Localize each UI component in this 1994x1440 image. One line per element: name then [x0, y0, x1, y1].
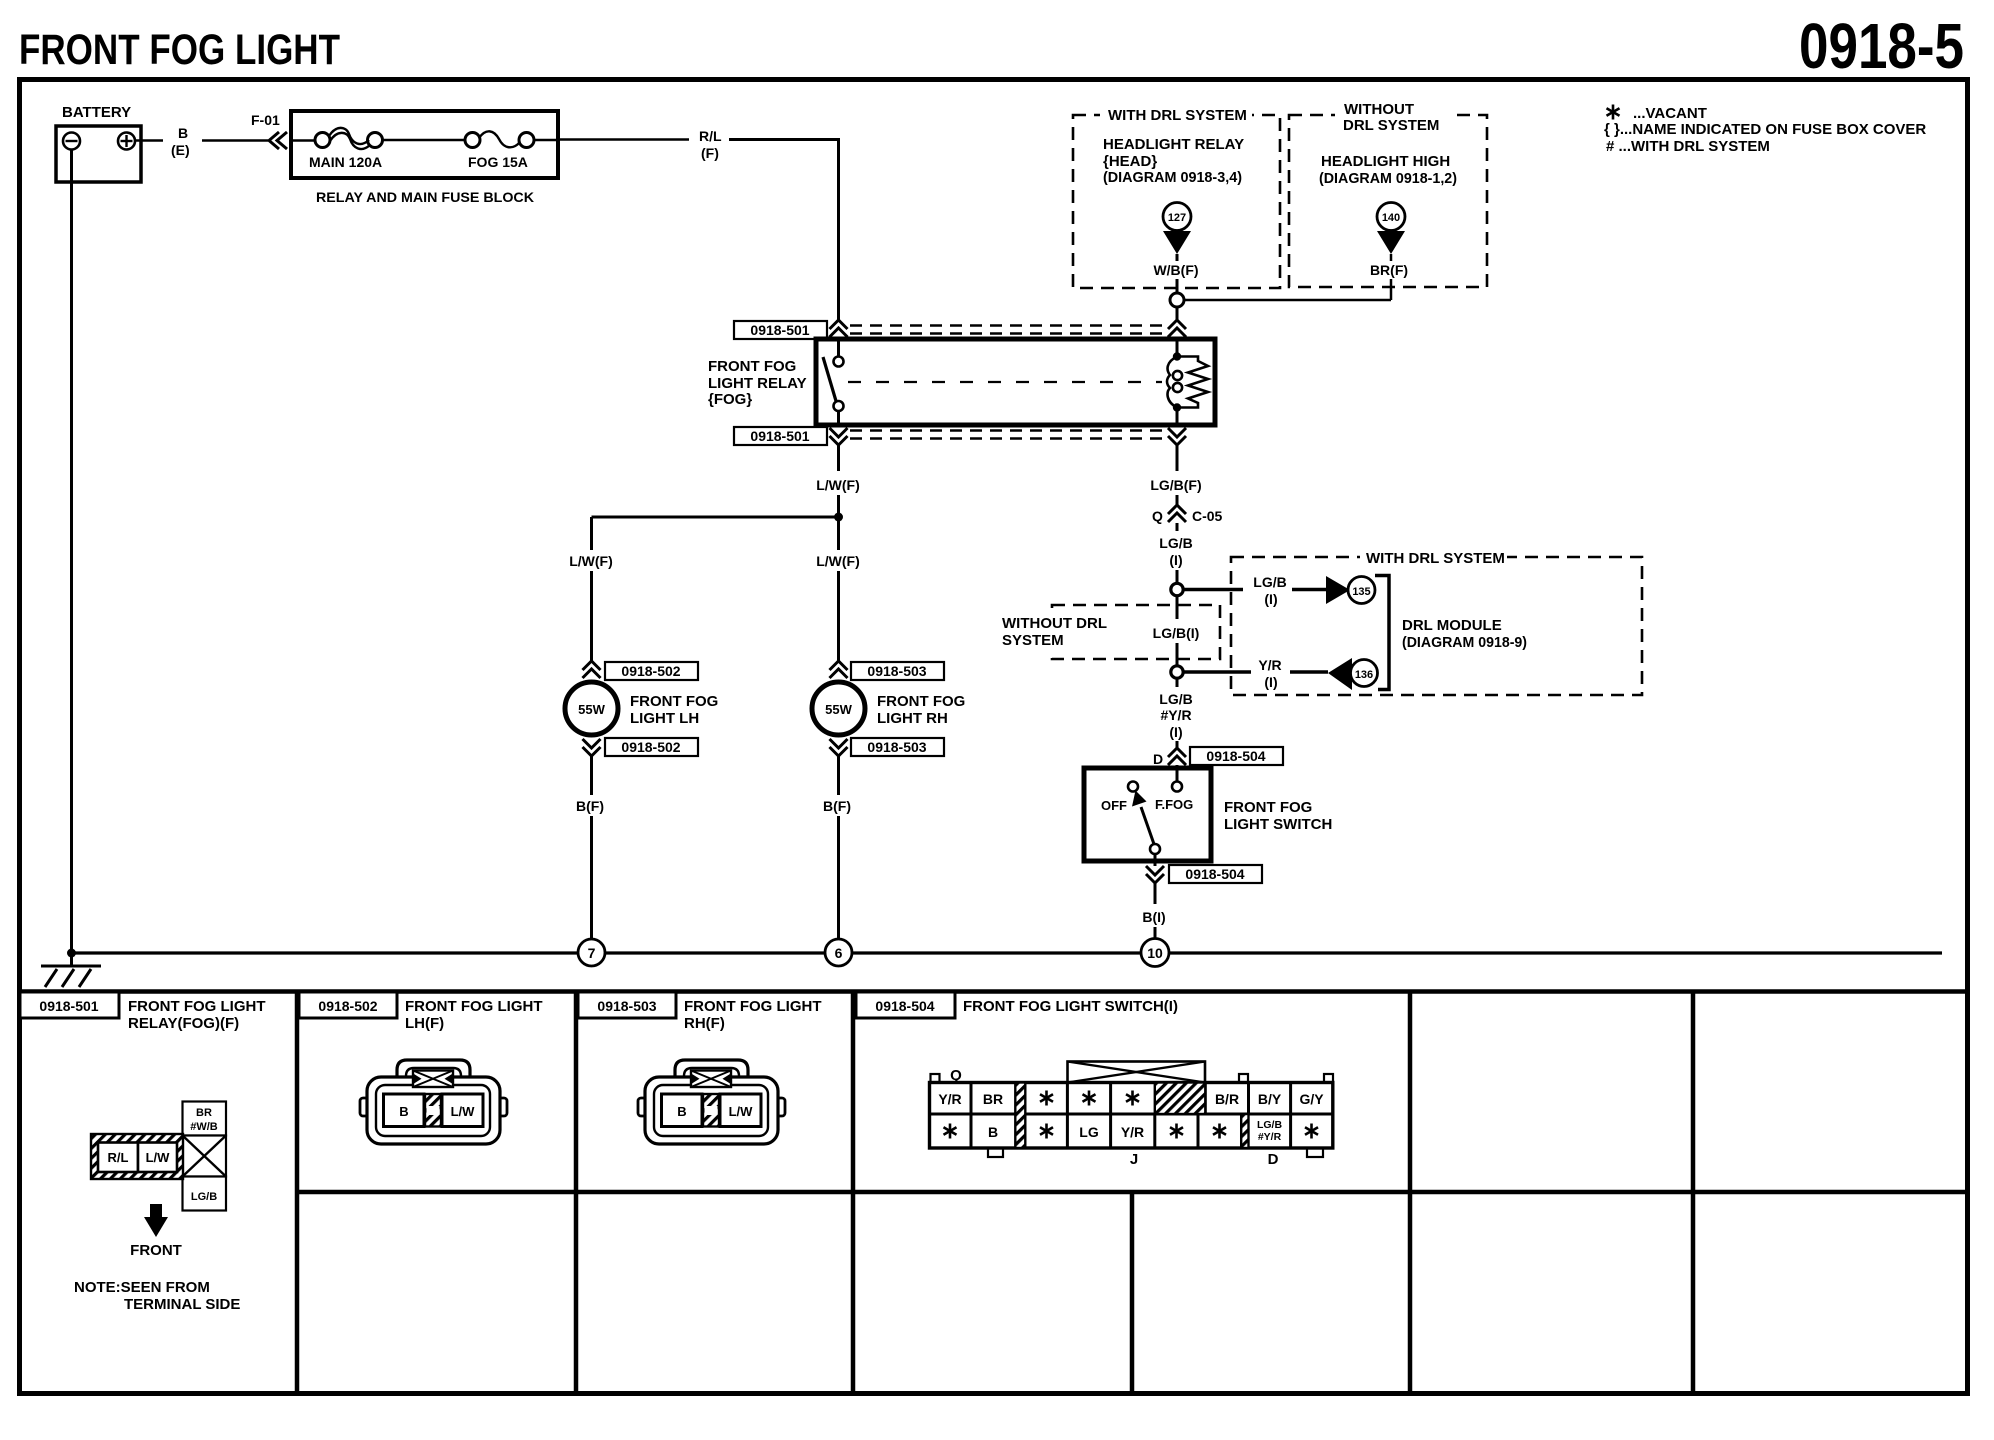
wire node to relay [1176, 307, 1179, 320]
svg-text:55W: 55W [825, 702, 852, 717]
wire LG/B(F) from relay down [1150, 445, 1201, 505]
svg-text:R/L: R/L [699, 128, 722, 144]
svg-text:0918-501: 0918-501 [39, 998, 98, 1014]
wire B(I) to ground 10 [1142, 883, 1165, 939]
svg-text:0918-5: 0918-5 [1799, 10, 1964, 82]
vacant terminals top row [1040, 1091, 1053, 1106]
svg-text:L/W: L/W [451, 1104, 476, 1119]
connector 0918-501 top label [734, 321, 827, 339]
fuse FOG 15A [465, 131, 534, 170]
svg-text:LIGHT RELAY: LIGHT RELAY [708, 375, 807, 392]
svg-text:LG/B: LG/B [1253, 574, 1286, 590]
svg-text:(I): (I) [1264, 674, 1277, 690]
dashed connector pair lines top [850, 324, 1166, 327]
svg-text:Y/R: Y/R [1121, 1124, 1144, 1140]
relay actuating dashed link [848, 381, 1162, 383]
junction node L/W [834, 513, 843, 522]
svg-text:7: 7 [588, 945, 596, 961]
svg-text:LIGHT SWITCH: LIGHT SWITCH [1224, 816, 1332, 833]
switch name text [1224, 799, 1332, 833]
wire LG/B (I) to arrow 135 [1183, 574, 1327, 607]
svg-text:L/W(F): L/W(F) [569, 553, 613, 569]
svg-text:Y/R: Y/R [1258, 657, 1281, 673]
chevrons through connector 0918-501 top [830, 320, 848, 337]
fog light RH connector view (cell 0918-503) [638, 1060, 785, 1144]
table header 0918-501 [20, 992, 265, 1032]
wire into switch [1176, 765, 1179, 781]
left branch wire L/W(F) to LH lamp [569, 517, 613, 662]
svg-text:{HEAD}: {HEAD} [1103, 153, 1157, 170]
wire LG/B(I) between nodes [1153, 596, 1200, 667]
svg-text:(DIAGRAM 0918-1,2): (DIAGRAM 0918-1,2) [1319, 170, 1457, 187]
svg-text:FOG 15A: FOG 15A [468, 154, 528, 170]
ground point 10 [1141, 939, 1169, 967]
svg-text:LG/B: LG/B [1159, 535, 1192, 551]
connector arrow 136 from DRL module [1328, 658, 1378, 690]
svg-text:140: 140 [1382, 212, 1400, 224]
svg-text:0918-503: 0918-503 [597, 998, 656, 1014]
svg-text:HEADLIGHT RELAY: HEADLIGHT RELAY [1103, 136, 1244, 153]
svg-text:W/B(F): W/B(F) [1153, 262, 1198, 278]
relay coil [1167, 341, 1208, 424]
svg-text:0918-501: 0918-501 [750, 428, 809, 444]
svg-text:0918-502: 0918-502 [621, 739, 680, 755]
wire fuse block to corner, label R/L (F) [534, 128, 840, 161]
headlight relay reference text [1103, 136, 1244, 186]
WITH DRL SYSTEM dashed box (drl module) [1231, 548, 1642, 695]
connector body side nubs [360, 1098, 374, 1116]
svg-text:136: 136 [1355, 669, 1373, 681]
svg-text:127: 127 [1168, 212, 1186, 224]
connector arrow 135 into DRL module [1326, 576, 1375, 604]
svg-text:SYSTEM: SYSTEM [1002, 632, 1064, 649]
svg-text:B: B [399, 1104, 408, 1119]
connector 0918-504 top with pin D [1153, 747, 1283, 767]
svg-text:LG/B: LG/B [1159, 691, 1192, 707]
node joining W/B and BR [1170, 293, 1184, 307]
svg-text:L/W: L/W [146, 1150, 171, 1165]
svg-text:LG/B(I): LG/B(I) [1153, 625, 1200, 641]
svg-text:#W/B: #W/B [190, 1121, 218, 1133]
terminal LG/B [183, 1177, 227, 1211]
switch connector view (cell 0918-504) [930, 1062, 1334, 1169]
svg-text:WITHOUT DRL: WITHOUT DRL [1002, 615, 1107, 632]
WITHOUT DRL SYSTEM dashed box (headlight high) [1289, 97, 1487, 287]
vacant terminal bottom right [1305, 1124, 1318, 1139]
svg-text:WITH DRL SYSTEM: WITH DRL SYSTEM [1366, 550, 1505, 567]
vacant terminal [1040, 1124, 1053, 1139]
svg-text:D: D [1153, 751, 1163, 767]
svg-text:RELAY AND MAIN FUSE BLOCK: RELAY AND MAIN FUSE BLOCK [316, 189, 534, 205]
svg-text:HEADLIGHT HIGH: HEADLIGHT HIGH [1321, 153, 1450, 170]
wire W/B(F) to node [1153, 254, 1198, 293]
battery plus terminal [118, 133, 135, 150]
svg-text:BATTERY: BATTERY [62, 104, 131, 121]
svg-text:(DIAGRAM 0918-3,4): (DIAGRAM 0918-3,4) [1103, 169, 1242, 186]
WITHOUT DRL SYSTEM dashed box (bypass) [998, 605, 1220, 659]
svg-text:BR: BR [196, 1107, 212, 1119]
node to DRL module 136 [1171, 666, 1183, 678]
front fog light LH bulb 55W [565, 682, 718, 735]
connector 0918-503 upper chevron and label [830, 661, 945, 680]
relay connector terminal view (cell 0918-501) [74, 1102, 240, 1314]
row divider [930, 1113, 1333, 1116]
front direction arrow [150, 1204, 162, 1219]
svg-text:FRONT FOG LIGHT: FRONT FOG LIGHT [405, 998, 542, 1015]
svg-text:BR: BR [983, 1091, 1003, 1107]
svg-text:0918-502: 0918-502 [318, 998, 377, 1014]
connector arrow 127 (headlight relay feed) [1163, 203, 1191, 255]
vacant terminals bottom [1170, 1124, 1183, 1139]
front fog light switch box [1084, 768, 1211, 861]
svg-text:6: 6 [835, 945, 843, 961]
table header 0918-503 [578, 992, 821, 1032]
vacant terminal bottom left [944, 1124, 957, 1139]
relay name text [708, 358, 807, 408]
svg-text:B: B [988, 1124, 998, 1140]
ground point 7 [578, 939, 605, 966]
fog light LH connector view (cell 0918-502) [360, 1060, 507, 1144]
svg-text:LG: LG [1079, 1124, 1099, 1140]
dashed connector pair lines bottom [850, 429, 1166, 432]
hatched housing with R/L and L/W [91, 1134, 183, 1179]
svg-text:LG/B: LG/B [1257, 1119, 1282, 1131]
svg-text:Q: Q [1152, 508, 1163, 524]
svg-text:B: B [178, 125, 188, 141]
connector 0918-504 bottom [1146, 861, 1262, 883]
svg-text:FRONT FOG LIGHT: FRONT FOG LIGHT [128, 998, 265, 1015]
switch contacts and blade [1101, 782, 1193, 862]
svg-text:Y/R: Y/R [938, 1091, 961, 1107]
front fog light relay box [816, 339, 1215, 425]
junction dot battery ground [67, 949, 76, 958]
top row dividers [970, 1083, 973, 1115]
DRL module reference text [1402, 617, 1527, 651]
wire between fuses [383, 139, 466, 142]
svg-text:(E): (E) [171, 142, 190, 158]
wire R/L down to relay [837, 140, 840, 321]
ground symbol [41, 953, 101, 987]
bottom row dividers [970, 1114, 973, 1148]
svg-text:0918-503: 0918-503 [867, 739, 926, 755]
svg-text:FRONT FOG LIGHT SWITCH(I): FRONT FOG LIGHT SWITCH(I) [963, 998, 1178, 1015]
terminal L/W [442, 1094, 483, 1127]
terminal BR #W/B [183, 1102, 227, 1136]
wire B(F) RH to ground 6 [823, 756, 851, 939]
svg-text:RELAY(FOG)(F): RELAY(FOG)(F) [128, 1015, 239, 1032]
svg-text:D: D [1268, 1151, 1279, 1168]
svg-text:TERMINAL SIDE: TERMINAL SIDE [124, 1296, 240, 1313]
svg-text:WITH DRL SYSTEM: WITH DRL SYSTEM [1108, 107, 1247, 124]
wire B(F) LH to ground 7 [576, 756, 604, 939]
svg-text:F.FOG: F.FOG [1155, 797, 1193, 812]
fuse MAIN 120A (fusible link, double S line) [309, 128, 383, 170]
svg-text:#Y/R: #Y/R [1258, 1131, 1282, 1143]
connector 0918-501 bottom label [734, 427, 827, 445]
svg-text:(I): (I) [1169, 724, 1182, 740]
headlight high reference text [1319, 153, 1457, 187]
housing tabs [931, 1074, 940, 1083]
svg-text:BR(F): BR(F) [1370, 262, 1408, 278]
svg-text:LG/B: LG/B [191, 1191, 217, 1203]
svg-text:R/L: R/L [108, 1150, 129, 1165]
keying bowtie [413, 1071, 453, 1088]
svg-text:F-01: F-01 [251, 112, 280, 128]
svg-text:LIGHT RH: LIGHT RH [877, 710, 948, 727]
svg-text:LH(F): LH(F) [405, 1015, 444, 1032]
svg-text:0918-501: 0918-501 [750, 322, 809, 338]
wire Y/R (I) from arrow 136 [1183, 657, 1328, 690]
connector body [367, 1077, 500, 1144]
legend vacant star [1607, 105, 1707, 123]
vacant X cell [183, 1136, 227, 1177]
wire BR(F) down and left to node [1184, 254, 1408, 300]
svg-text:FRONT FOG: FRONT FOG [1224, 799, 1312, 816]
svg-text:L/W(F): L/W(F) [816, 477, 860, 493]
connector body grid [930, 1083, 1333, 1149]
svg-text:{ }...NAME INDICATED ON FUSE B: { }...NAME INDICATED ON FUSE BOX COVER [1604, 121, 1926, 138]
terminal B [384, 1094, 425, 1127]
svg-text:(F): (F) [701, 145, 719, 161]
svg-text:(DIAGRAM 0918-9): (DIAGRAM 0918-9) [1402, 634, 1527, 651]
svg-text:#Y/R: #Y/R [1160, 707, 1191, 723]
hatched keyway strip bottom row [1241, 1114, 1248, 1148]
svg-text:J: J [1130, 1151, 1138, 1168]
wire battery plus to fuse block, label B (E) [135, 125, 268, 158]
svg-text:B/R: B/R [1215, 1091, 1239, 1107]
battery minus terminal [63, 133, 80, 150]
lock tab arch [397, 1060, 470, 1082]
WITH DRL SYSTEM dashed box (headlight relay) [1073, 104, 1280, 288]
svg-text:# ...WITH DRL SYSTEM: # ...WITH DRL SYSTEM [1606, 138, 1770, 155]
svg-text:MAIN 120A: MAIN 120A [309, 154, 382, 170]
svg-text:LG/B(F): LG/B(F) [1150, 477, 1201, 493]
svg-text:G/Y: G/Y [1299, 1091, 1324, 1107]
svg-text:C-05: C-05 [1192, 508, 1223, 524]
table grid lines [19, 991, 1968, 1394]
svg-text:FRONT FOG LIGHT: FRONT FOG LIGHT [19, 26, 340, 74]
svg-text:B(F): B(F) [576, 798, 604, 814]
svg-text:OFF: OFF [1101, 798, 1127, 813]
connector C-05 chevron with pin Q [1152, 505, 1223, 524]
svg-text:FRONT FOG: FRONT FOG [630, 693, 718, 710]
svg-text:B/Y: B/Y [1258, 1091, 1282, 1107]
wire into fuse MAIN [290, 139, 315, 142]
svg-text:B(F): B(F) [823, 798, 851, 814]
hatched vacant cell top row [1155, 1083, 1206, 1115]
svg-text:L/W(F): L/W(F) [816, 553, 860, 569]
wire LG/B #Y/R (I) from node to switch connector [1159, 678, 1192, 748]
ground point 6 [825, 939, 852, 966]
svg-text:LIGHT LH: LIGHT LH [630, 710, 699, 727]
svg-text:0918-504: 0918-504 [875, 998, 934, 1014]
svg-text:0918-504: 0918-504 [1185, 866, 1244, 882]
battery [56, 104, 141, 182]
keying bowtie top [1068, 1062, 1206, 1083]
svg-text:135: 135 [1352, 586, 1370, 598]
connector 0918-502 upper chevron and label [583, 661, 699, 680]
svg-text:0918-503: 0918-503 [867, 663, 926, 679]
keyway strip [425, 1094, 441, 1127]
svg-text:FRONT FOG: FRONT FOG [877, 693, 965, 710]
DRL module bracket [1375, 576, 1389, 690]
svg-text:FRONT FOG: FRONT FOG [708, 358, 796, 375]
connector 0918-503 lower chevron and label [830, 738, 945, 756]
svg-text:...VACANT: ...VACANT [1633, 105, 1707, 122]
svg-text:0918-502: 0918-502 [621, 663, 680, 679]
connector arrow 140 (headlight high feed) [1377, 203, 1405, 255]
svg-text:DRL SYSTEM: DRL SYSTEM [1343, 117, 1439, 134]
relay and main fuse block box [291, 111, 558, 205]
node to DRL module 135 [1171, 583, 1183, 595]
svg-text:NOTE:SEEN FROM: NOTE:SEEN FROM [74, 1279, 210, 1296]
right branch wire L/W(F) to RH lamp [816, 517, 860, 662]
front fog light RH bulb 55W [812, 682, 965, 735]
connector F-01 chevrons [251, 112, 287, 149]
chevrons through connector 0918-501 bottom [830, 428, 848, 445]
svg-text:WITHOUT: WITHOUT [1344, 101, 1414, 118]
svg-text:10: 10 [1147, 945, 1163, 961]
wire L/W(F) from relay to junction [816, 445, 860, 519]
svg-text:{FOG}: {FOG} [708, 391, 752, 408]
ground bus wire [71, 951, 1942, 954]
relay switch contacts [823, 341, 844, 424]
wire LG/B (I) to node1 [1159, 523, 1192, 583]
svg-text:FRONT FOG LIGHT: FRONT FOG LIGHT [684, 998, 821, 1015]
svg-text:DRL MODULE: DRL MODULE [1402, 617, 1502, 634]
svg-text:0918-504: 0918-504 [1206, 748, 1265, 764]
svg-text:(I): (I) [1169, 552, 1182, 568]
hatched keyway full strip [1015, 1083, 1025, 1149]
svg-text:55W: 55W [578, 702, 605, 717]
svg-text:(I): (I) [1264, 591, 1277, 607]
svg-text:RH(F): RH(F) [684, 1015, 725, 1032]
table header 0918-502 [299, 992, 542, 1032]
connector 0918-502 lower chevron and label [583, 738, 699, 756]
svg-text:B(I): B(I) [1142, 909, 1165, 925]
wire battery minus to ground bus [70, 150, 73, 954]
wire junction to left branch [592, 516, 841, 519]
table header 0918-504 [856, 992, 1178, 1018]
svg-text:FRONT: FRONT [130, 1242, 182, 1259]
